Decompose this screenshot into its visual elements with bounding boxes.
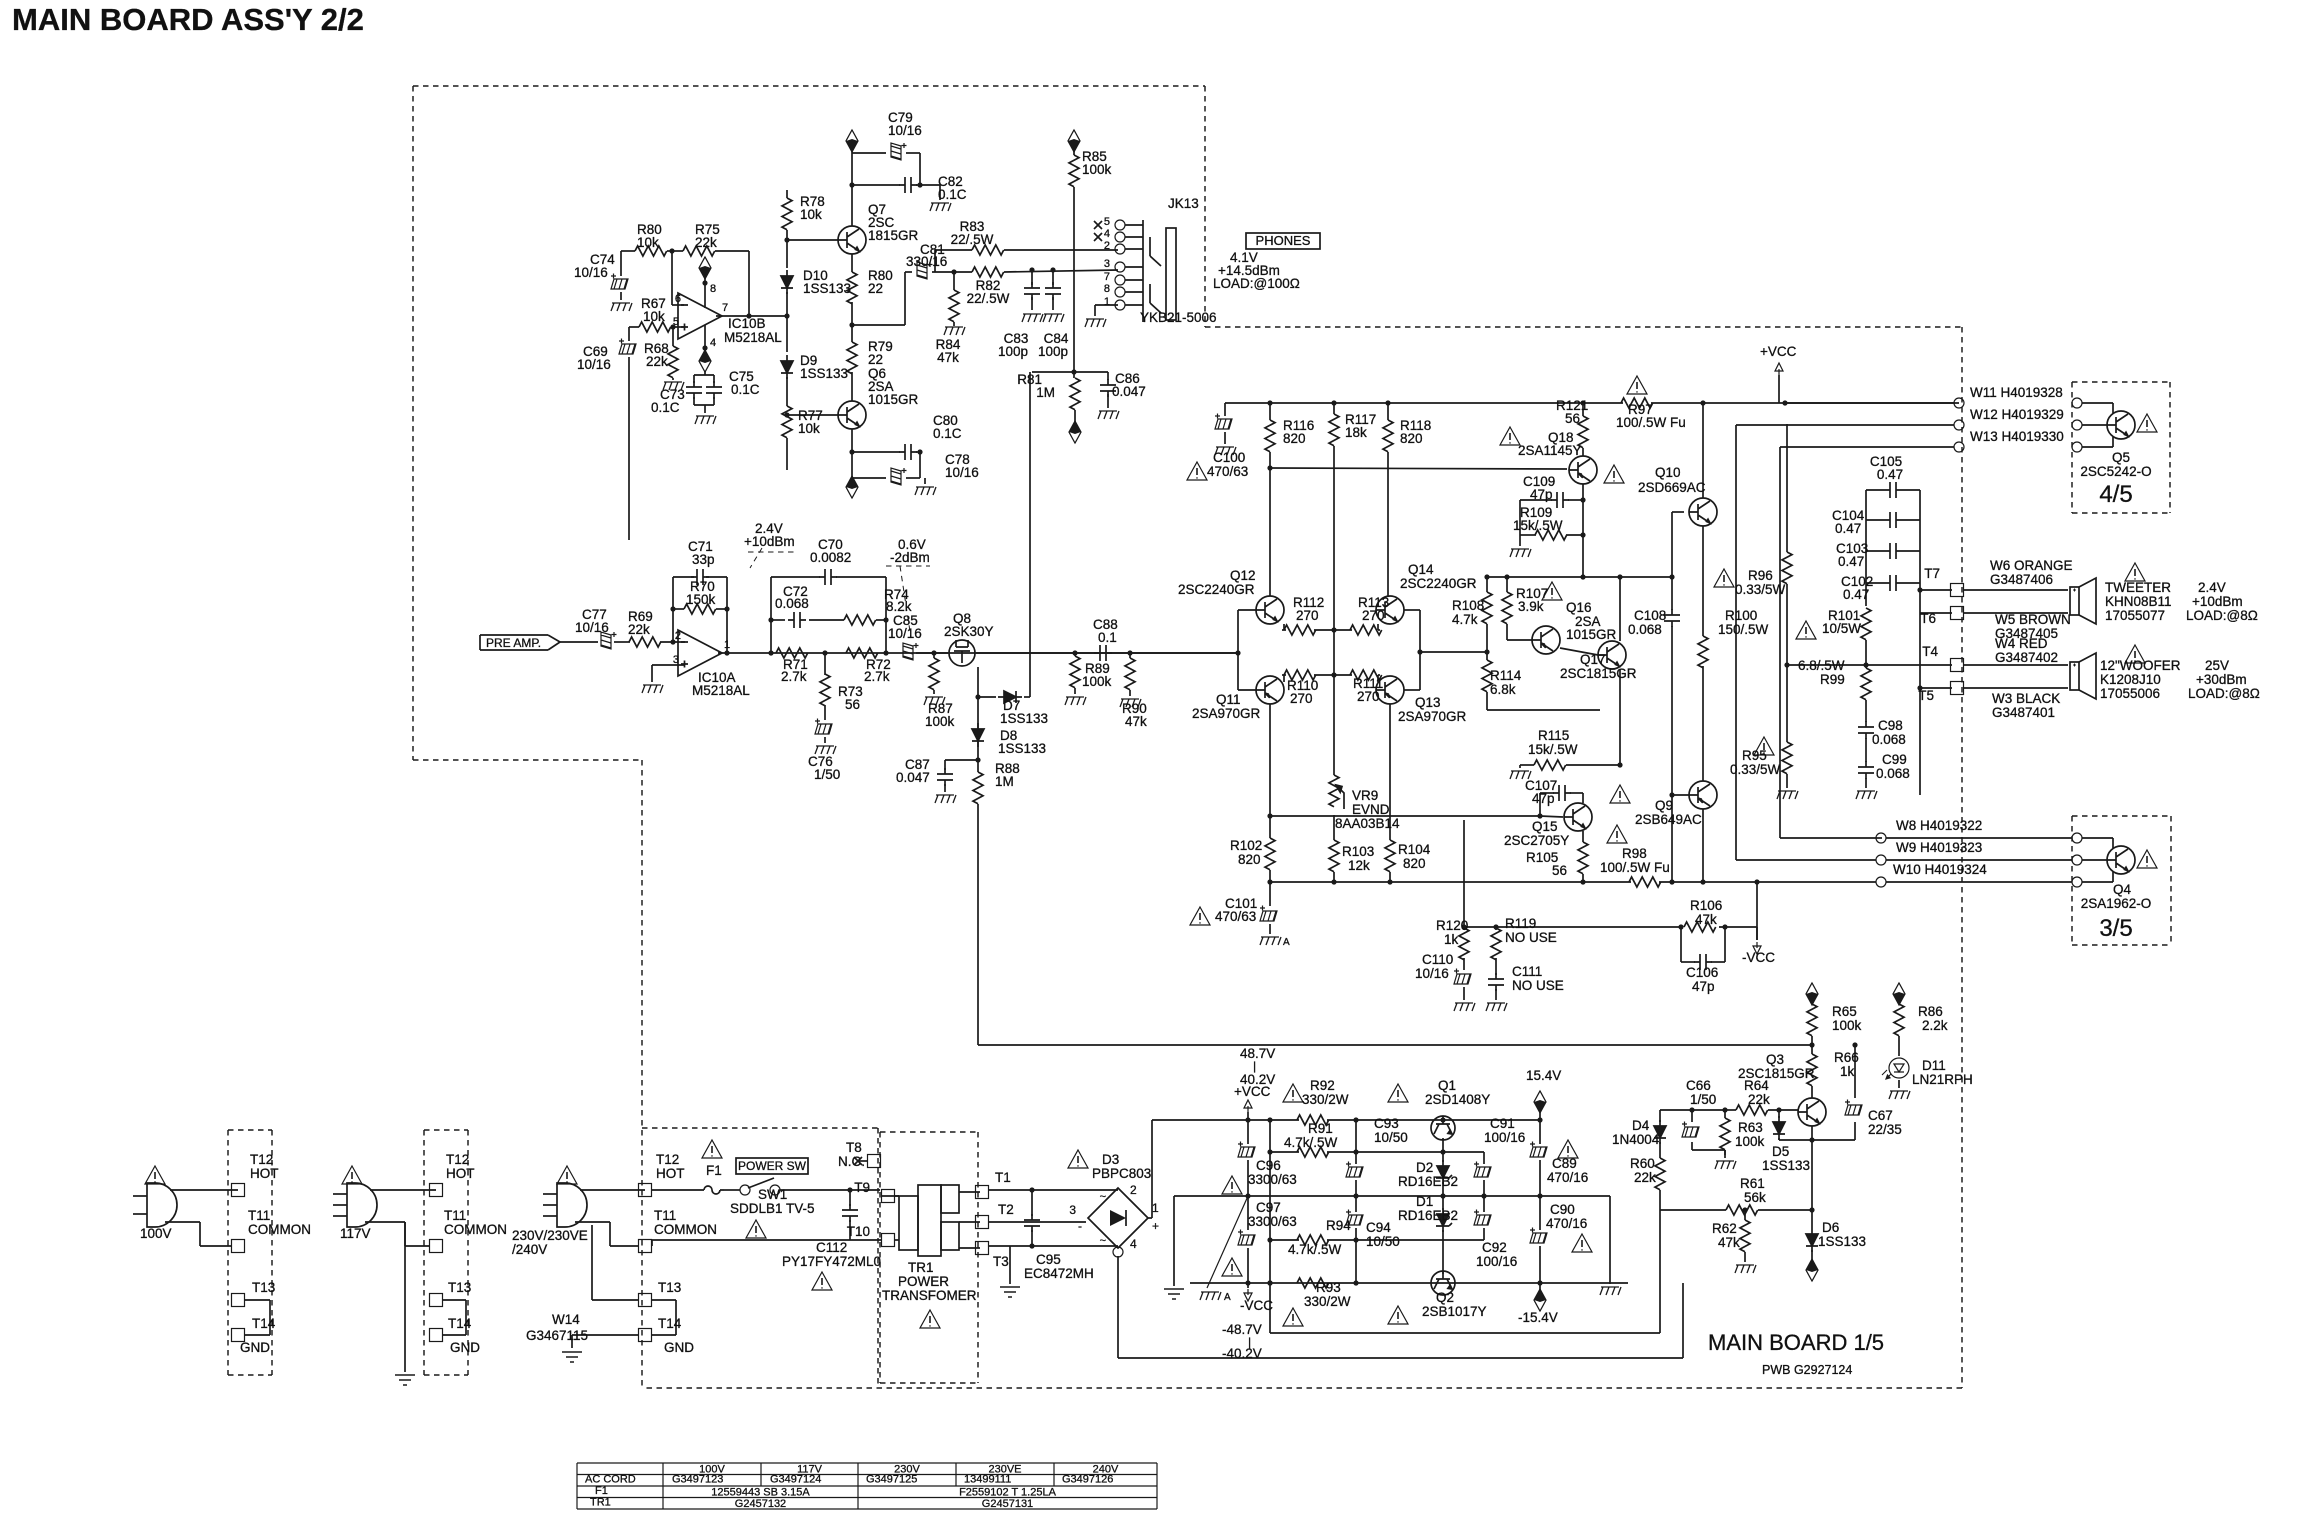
- svg-text:F2559102 T 1.25LA: F2559102 T 1.25LA: [959, 1487, 1057, 1499]
- svg-text:2SC2240GR: 2SC2240GR: [1400, 576, 1477, 591]
- svg-text:C66: C66: [1686, 1078, 1711, 1093]
- svg-text:C91: C91: [1490, 1116, 1515, 1131]
- svg-text:10/16: 10/16: [574, 265, 608, 280]
- svg-text:10k: 10k: [643, 309, 665, 324]
- svg-text:T14: T14: [658, 1316, 682, 1331]
- svg-text:Q13: Q13: [1415, 695, 1441, 710]
- svg-text:D3: D3: [1102, 1152, 1119, 1167]
- svg-text:C100: C100: [1213, 450, 1245, 465]
- svg-text:T13: T13: [252, 1280, 275, 1295]
- svg-text:-: -: [1078, 1219, 1082, 1233]
- svg-text:NO USE: NO USE: [1512, 978, 1564, 993]
- svg-text:Q10: Q10: [1655, 465, 1681, 480]
- svg-text:1: 1: [1104, 296, 1110, 308]
- svg-text:100V: 100V: [140, 1226, 172, 1241]
- svg-text:15.4V: 15.4V: [1526, 1068, 1561, 1083]
- svg-text:1/50: 1/50: [814, 767, 840, 782]
- svg-text:100p: 100p: [998, 344, 1028, 359]
- svg-text:4.7k/.5W: 4.7k/.5W: [1288, 1242, 1342, 1257]
- svg-text:TR1: TR1: [908, 1260, 934, 1275]
- svg-text:Q14: Q14: [1408, 562, 1434, 577]
- svg-text:2SC2240GR: 2SC2240GR: [1178, 582, 1255, 597]
- svg-text:117V: 117V: [340, 1226, 371, 1241]
- svg-text:C108: C108: [1634, 608, 1666, 623]
- svg-text:100/.5W Fu: 100/.5W Fu: [1600, 860, 1670, 875]
- svg-text:100k: 100k: [1082, 162, 1112, 177]
- svg-text:R108: R108: [1452, 598, 1484, 613]
- svg-text:10k: 10k: [800, 207, 822, 222]
- svg-text:0.1C: 0.1C: [933, 426, 962, 441]
- svg-text:12559443 SB 3.15A: 12559443 SB 3.15A: [711, 1487, 810, 1499]
- svg-text:R63: R63: [1738, 1120, 1763, 1135]
- svg-text:1M: 1M: [995, 774, 1014, 789]
- svg-text:47p: 47p: [1530, 487, 1553, 502]
- svg-text:1SS133: 1SS133: [803, 281, 851, 296]
- svg-text:4: 4: [1130, 1237, 1137, 1251]
- svg-text:40.2V: 40.2V: [1240, 1072, 1275, 1087]
- svg-text:HOT: HOT: [250, 1166, 279, 1181]
- svg-text:R115: R115: [1538, 728, 1569, 743]
- svg-text:-VCC: -VCC: [1742, 950, 1775, 965]
- svg-text:1k: 1k: [1444, 932, 1459, 947]
- svg-text:0.47: 0.47: [1838, 554, 1864, 569]
- svg-text:A: A: [1283, 937, 1290, 948]
- svg-text:2: 2: [1104, 240, 1110, 252]
- svg-text:R95: R95: [1742, 748, 1767, 763]
- svg-text:PBPC803: PBPC803: [1092, 1166, 1151, 1181]
- svg-text:100/.5W Fu: 100/.5W Fu: [1616, 415, 1686, 430]
- svg-text:15k/.5W: 15k/.5W: [1528, 742, 1578, 757]
- svg-text:T10: T10: [847, 1224, 870, 1239]
- svg-text:1SS133: 1SS133: [1762, 1158, 1810, 1173]
- svg-text:HOT: HOT: [446, 1166, 475, 1181]
- svg-text:T11: T11: [248, 1208, 270, 1223]
- svg-text:270: 270: [1357, 689, 1380, 704]
- svg-text:10/16: 10/16: [888, 123, 922, 138]
- svg-text:G2457131: G2457131: [982, 1498, 1033, 1510]
- svg-text:R102: R102: [1230, 838, 1262, 853]
- svg-text:T14: T14: [448, 1316, 472, 1331]
- svg-text:F1: F1: [706, 1163, 722, 1178]
- svg-text:R65: R65: [1832, 1004, 1857, 1019]
- svg-text:2.4V: 2.4V: [2198, 580, 2226, 595]
- svg-text:T11: T11: [444, 1208, 466, 1223]
- svg-text:1: 1: [724, 639, 730, 651]
- svg-text:2: 2: [675, 630, 681, 642]
- svg-text:270: 270: [1362, 608, 1385, 623]
- svg-text:+10dBm: +10dBm: [744, 534, 795, 549]
- svg-text:T7: T7: [1924, 566, 1940, 581]
- svg-text:0.068: 0.068: [1872, 732, 1906, 747]
- svg-text:Q4: Q4: [2113, 882, 2132, 897]
- svg-text:COMMON: COMMON: [444, 1222, 507, 1237]
- svg-text:PHONES: PHONES: [1256, 233, 1311, 248]
- svg-text:T12: T12: [250, 1152, 273, 1167]
- svg-text:W5 BROWN: W5 BROWN: [1995, 612, 2071, 627]
- svg-text:+30dBm: +30dBm: [2196, 672, 2247, 687]
- svg-text:0.47: 0.47: [1835, 521, 1861, 536]
- svg-text:6.8k: 6.8k: [1490, 682, 1516, 697]
- svg-text:-48.7V: -48.7V: [1222, 1322, 1262, 1337]
- svg-text:R91: R91: [1308, 1121, 1333, 1136]
- svg-text:C96: C96: [1256, 1158, 1281, 1173]
- svg-text:3: 3: [673, 654, 679, 666]
- svg-text:10/16: 10/16: [888, 626, 922, 641]
- svg-text:LOAD:@8Ω: LOAD:@8Ω: [2186, 608, 2258, 623]
- svg-text:RD16EB2: RD16EB2: [1398, 1208, 1458, 1223]
- svg-text:SW1: SW1: [758, 1187, 787, 1202]
- svg-text:1SS133: 1SS133: [800, 366, 848, 381]
- svg-text:22: 22: [868, 352, 883, 367]
- svg-text:56: 56: [1565, 411, 1580, 426]
- svg-text:T2: T2: [998, 1202, 1014, 1217]
- svg-text:47k: 47k: [937, 350, 959, 365]
- svg-text:3.9k: 3.9k: [1518, 599, 1544, 614]
- svg-text:17055077: 17055077: [2105, 608, 2165, 623]
- svg-text:0.1: 0.1: [1098, 630, 1117, 645]
- svg-text:W3 BLACK: W3 BLACK: [1992, 691, 2060, 706]
- svg-text:270: 270: [1290, 691, 1313, 706]
- svg-text:COMMON: COMMON: [248, 1222, 311, 1237]
- svg-text:2: 2: [1130, 1183, 1137, 1197]
- svg-text:2SB649AC: 2SB649AC: [1635, 812, 1702, 827]
- svg-text:MAIN BOARD 1/5: MAIN BOARD 1/5: [1708, 1330, 1884, 1355]
- svg-text:R96: R96: [1748, 568, 1773, 583]
- svg-text:R94: R94: [1326, 1218, 1351, 1233]
- svg-text:KHN08B11: KHN08B11: [2105, 594, 2172, 609]
- svg-text:3: 3: [1104, 258, 1110, 270]
- svg-text:T12: T12: [446, 1152, 469, 1167]
- svg-text:+: +: [1152, 1219, 1159, 1233]
- svg-text:YKB21-5006: YKB21-5006: [1140, 310, 1217, 325]
- svg-text:10/50: 10/50: [1374, 1130, 1408, 1145]
- svg-text:56: 56: [845, 697, 860, 712]
- svg-text:+10dBm: +10dBm: [2192, 594, 2243, 609]
- svg-text:D1: D1: [1416, 1194, 1433, 1209]
- svg-text:56k: 56k: [1744, 1190, 1766, 1205]
- svg-text:820: 820: [1238, 852, 1261, 867]
- svg-text:0.33/5W: 0.33/5W: [1735, 582, 1786, 597]
- svg-text:W6 ORANGE: W6 ORANGE: [1990, 558, 2073, 573]
- svg-text:330/2W: 330/2W: [1302, 1092, 1349, 1107]
- svg-text:0.047: 0.047: [1112, 384, 1146, 399]
- svg-text:R93: R93: [1316, 1280, 1341, 1295]
- svg-text:2SA970GR: 2SA970GR: [1398, 709, 1467, 724]
- svg-text:3/5: 3/5: [2099, 915, 2132, 942]
- svg-text:Q3: Q3: [1766, 1052, 1784, 1067]
- svg-text:TRANSFOMER: TRANSFOMER: [882, 1288, 977, 1303]
- svg-text:56: 56: [1552, 863, 1567, 878]
- svg-text:2SC1815GR: 2SC1815GR: [1560, 666, 1637, 681]
- svg-text:5: 5: [673, 316, 679, 328]
- svg-text:T6: T6: [1920, 611, 1936, 626]
- svg-text:C89: C89: [1552, 1156, 1577, 1171]
- svg-text:C106: C106: [1686, 965, 1718, 980]
- svg-text:22k: 22k: [1748, 1092, 1770, 1107]
- svg-text:R61: R61: [1740, 1176, 1765, 1191]
- svg-text:R104: R104: [1398, 842, 1431, 857]
- svg-text:2.7k: 2.7k: [864, 669, 890, 684]
- svg-text:22k: 22k: [646, 354, 668, 369]
- svg-text:Q17: Q17: [1580, 652, 1606, 667]
- svg-text:G3487406: G3487406: [1990, 572, 2053, 587]
- svg-text:C110: C110: [1422, 952, 1453, 967]
- svg-text:100/16: 100/16: [1484, 1130, 1525, 1145]
- svg-text:10/16: 10/16: [577, 357, 611, 372]
- svg-text:10/16: 10/16: [575, 620, 609, 635]
- svg-text:G3467115: G3467115: [526, 1328, 588, 1343]
- svg-text:R106: R106: [1690, 898, 1722, 913]
- svg-text:D5: D5: [1772, 1144, 1789, 1159]
- svg-text:8AA03B14: 8AA03B14: [1335, 816, 1400, 831]
- svg-text:33p: 33p: [692, 552, 715, 567]
- svg-text:VR9: VR9: [1352, 788, 1378, 803]
- svg-text:12"WOOFER: 12"WOOFER: [2100, 658, 2181, 673]
- svg-text:0.068: 0.068: [775, 596, 809, 611]
- svg-text:22/.5W: 22/.5W: [951, 232, 994, 247]
- svg-text:D11: D11: [1922, 1058, 1946, 1073]
- svg-text:PWB G2927124: PWB G2927124: [1762, 1363, 1852, 1377]
- svg-text:Q16: Q16: [1566, 600, 1592, 615]
- svg-text:6: 6: [675, 293, 681, 305]
- svg-text:K1208J10: K1208J10: [2100, 672, 2161, 687]
- svg-text:~: ~: [1100, 1235, 1106, 1247]
- svg-text:G3497125: G3497125: [866, 1474, 917, 1486]
- svg-text:2.2k: 2.2k: [1922, 1018, 1948, 1033]
- svg-text:GND: GND: [450, 1340, 480, 1355]
- svg-text:10/16: 10/16: [945, 465, 979, 480]
- svg-text:LOAD:@8Ω: LOAD:@8Ω: [2188, 686, 2260, 701]
- svg-text:R92: R92: [1310, 1078, 1335, 1093]
- svg-text:22k: 22k: [1634, 1170, 1656, 1185]
- svg-text:Q5: Q5: [2112, 450, 2130, 465]
- svg-text:25V: 25V: [2205, 658, 2229, 673]
- svg-text:W9 H4019323: W9 H4019323: [1896, 840, 1982, 855]
- svg-text:C67: C67: [1868, 1108, 1893, 1123]
- svg-text:7: 7: [722, 302, 728, 314]
- svg-text:N.C.: N.C.: [838, 1154, 865, 1169]
- svg-text:1815GR: 1815GR: [868, 228, 919, 243]
- svg-text:4.7k: 4.7k: [1452, 612, 1478, 627]
- svg-text:13499111: 13499111: [964, 1474, 1011, 1486]
- svg-text:TR1: TR1: [590, 1497, 611, 1509]
- svg-text:COMMON: COMMON: [654, 1222, 717, 1237]
- svg-text:GND: GND: [664, 1340, 694, 1355]
- svg-text:W11 H4019328: W11 H4019328: [1970, 385, 2063, 400]
- svg-text:2SA970GR: 2SA970GR: [1192, 706, 1261, 721]
- svg-text:C90: C90: [1550, 1202, 1575, 1217]
- svg-text:A: A: [1224, 1292, 1231, 1303]
- svg-text:C111: C111: [1512, 964, 1542, 979]
- svg-text:~: ~: [1100, 1191, 1106, 1203]
- svg-text:C94: C94: [1366, 1220, 1391, 1235]
- svg-text:R99: R99: [1820, 672, 1845, 687]
- svg-text:820: 820: [1283, 431, 1306, 446]
- svg-text:0.068: 0.068: [1876, 766, 1910, 781]
- svg-text:T11: T11: [654, 1208, 676, 1223]
- svg-text:1015GR: 1015GR: [1566, 627, 1617, 642]
- svg-text:47p: 47p: [1692, 979, 1715, 994]
- svg-text:T4: T4: [1922, 644, 1938, 659]
- svg-text:GND: GND: [240, 1340, 270, 1355]
- svg-text:1015GR: 1015GR: [868, 392, 919, 407]
- svg-text:150/.5W: 150/.5W: [1718, 622, 1769, 637]
- svg-text:8: 8: [1104, 283, 1110, 295]
- svg-text:47k: 47k: [1125, 714, 1147, 729]
- svg-text:2.7k: 2.7k: [781, 669, 807, 684]
- svg-text:LOAD:@100Ω: LOAD:@100Ω: [1213, 276, 1300, 291]
- svg-text:10/5W: 10/5W: [1822, 621, 1861, 636]
- svg-text:0.1C: 0.1C: [731, 382, 760, 397]
- svg-text:0.33/5W: 0.33/5W: [1730, 762, 1781, 777]
- svg-text:2SA1145Y: 2SA1145Y: [1518, 443, 1582, 458]
- svg-text:C92: C92: [1482, 1240, 1507, 1255]
- svg-text:100k: 100k: [1082, 674, 1112, 689]
- svg-text:D4: D4: [1632, 1118, 1650, 1133]
- svg-text:POWER: POWER: [898, 1274, 949, 1289]
- svg-text:/240V: /240V: [512, 1242, 547, 1257]
- svg-text:0.1C: 0.1C: [938, 187, 967, 202]
- svg-text:JK13: JK13: [1168, 196, 1199, 211]
- svg-text:G3497126: G3497126: [1062, 1474, 1113, 1486]
- svg-text:Q11: Q11: [1216, 692, 1241, 707]
- svg-text:0.0082: 0.0082: [810, 550, 851, 565]
- svg-text:C93: C93: [1374, 1116, 1399, 1131]
- svg-text:1N4004: 1N4004: [1612, 1132, 1660, 1147]
- svg-text:100/16: 100/16: [1476, 1254, 1517, 1269]
- svg-text:C99: C99: [1882, 752, 1907, 767]
- svg-text:10k: 10k: [798, 421, 820, 436]
- svg-text:W14: W14: [552, 1312, 580, 1327]
- svg-text:-40.2V: -40.2V: [1222, 1346, 1262, 1361]
- svg-text:T5: T5: [1918, 688, 1934, 703]
- svg-text:Q2: Q2: [1436, 1290, 1454, 1305]
- svg-text:4.7k/.5W: 4.7k/.5W: [1284, 1135, 1338, 1150]
- svg-text:M5218AL: M5218AL: [724, 330, 782, 345]
- svg-text:1M: 1M: [1036, 385, 1055, 400]
- svg-text:EVND: EVND: [1352, 802, 1390, 817]
- svg-text:LN21RPH: LN21RPH: [1912, 1072, 1973, 1087]
- svg-text:100k: 100k: [925, 714, 955, 729]
- svg-text:R100: R100: [1725, 608, 1757, 623]
- svg-text:W10 H4019324: W10 H4019324: [1893, 862, 1987, 877]
- svg-text:MAIN BOARD ASS'Y 2/2: MAIN BOARD ASS'Y 2/2: [12, 2, 364, 37]
- svg-text:100k: 100k: [1832, 1018, 1862, 1033]
- svg-text:12k: 12k: [1348, 858, 1370, 873]
- svg-text:RD16EB2: RD16EB2: [1398, 1174, 1458, 1189]
- svg-text:100k: 100k: [1735, 1134, 1765, 1149]
- svg-text:D2: D2: [1416, 1160, 1433, 1175]
- svg-text:PY17FY472ML0: PY17FY472ML0: [782, 1254, 881, 1269]
- svg-text:22/35: 22/35: [1868, 1122, 1902, 1137]
- svg-text:R114: R114: [1490, 668, 1522, 683]
- svg-text:R119: R119: [1505, 916, 1536, 931]
- svg-text:3300/63: 3300/63: [1248, 1214, 1297, 1229]
- svg-text:D6: D6: [1822, 1220, 1839, 1235]
- svg-text:1/50: 1/50: [1690, 1092, 1716, 1107]
- svg-text:R103: R103: [1342, 844, 1374, 859]
- svg-text:2SC5242-O: 2SC5242-O: [2080, 464, 2151, 479]
- svg-text:R66: R66: [1834, 1050, 1859, 1065]
- svg-text:470/63: 470/63: [1215, 909, 1256, 924]
- svg-text:0.47: 0.47: [1877, 467, 1903, 482]
- svg-text:W8 H4019322: W8 H4019322: [1896, 818, 1982, 833]
- svg-text:230V/230VE: 230V/230VE: [512, 1228, 588, 1243]
- svg-text:820: 820: [1400, 431, 1423, 446]
- svg-text:R86: R86: [1918, 1004, 1943, 1019]
- svg-text:Q15: Q15: [1532, 819, 1558, 834]
- svg-text:10/50: 10/50: [1366, 1234, 1400, 1249]
- svg-text:SDDLB1 TV-5: SDDLB1 TV-5: [730, 1201, 815, 1216]
- svg-text:6.8/.5W: 6.8/.5W: [1798, 658, 1845, 673]
- svg-text:HOT: HOT: [656, 1166, 685, 1181]
- svg-text:0.47: 0.47: [1843, 587, 1869, 602]
- svg-text:G2457132: G2457132: [735, 1498, 786, 1510]
- svg-text:2SB1017Y: 2SB1017Y: [1422, 1304, 1487, 1319]
- svg-text:3: 3: [1069, 1203, 1076, 1217]
- svg-text:22k: 22k: [695, 235, 717, 250]
- svg-text:T3: T3: [993, 1254, 1009, 1269]
- svg-text:17055006: 17055006: [2100, 686, 2160, 701]
- svg-text:C95: C95: [1036, 1252, 1061, 1267]
- svg-text:470/16: 470/16: [1547, 1170, 1588, 1185]
- svg-text:1SS133: 1SS133: [1818, 1234, 1866, 1249]
- svg-text:1k: 1k: [1840, 1064, 1855, 1079]
- svg-text:T1: T1: [995, 1170, 1011, 1185]
- svg-text:18k: 18k: [1345, 425, 1367, 440]
- svg-text:2SC2705Y: 2SC2705Y: [1504, 833, 1569, 848]
- svg-text:POWER SW: POWER SW: [738, 1159, 807, 1173]
- svg-text:100p: 100p: [1038, 344, 1068, 359]
- svg-text:3300/63: 3300/63: [1248, 1172, 1297, 1187]
- svg-text:G3497124: G3497124: [770, 1474, 821, 1486]
- svg-text:TWEETER: TWEETER: [2105, 580, 2171, 595]
- svg-text:7: 7: [1104, 271, 1110, 283]
- svg-text:2SA1962-O: 2SA1962-O: [2081, 896, 2152, 911]
- svg-text:C97: C97: [1256, 1200, 1281, 1215]
- svg-text:150k: 150k: [686, 592, 716, 607]
- svg-text:R120: R120: [1436, 918, 1468, 933]
- svg-text:T13: T13: [448, 1280, 471, 1295]
- svg-text:270: 270: [1296, 608, 1319, 623]
- svg-text:Q9: Q9: [1655, 798, 1673, 813]
- svg-text:T9: T9: [854, 1180, 870, 1195]
- svg-text:4: 4: [1104, 228, 1110, 240]
- svg-text:22: 22: [868, 281, 883, 296]
- svg-text:AC CORD: AC CORD: [585, 1474, 636, 1486]
- svg-text:R62: R62: [1712, 1221, 1737, 1236]
- svg-text:1: 1: [1152, 1201, 1159, 1215]
- svg-text:-VCC: -VCC: [1240, 1298, 1273, 1313]
- svg-text:10/16: 10/16: [1415, 966, 1449, 981]
- svg-text:330/2W: 330/2W: [1304, 1294, 1351, 1309]
- svg-text:G3497123: G3497123: [672, 1474, 723, 1486]
- svg-text:22k: 22k: [628, 622, 650, 637]
- svg-text:C112: C112: [816, 1240, 847, 1255]
- svg-text:820: 820: [1403, 856, 1426, 871]
- svg-text:W12 H4019329: W12 H4019329: [1970, 407, 2064, 422]
- svg-text:8.2k: 8.2k: [886, 599, 912, 614]
- svg-text:Q1: Q1: [1438, 1078, 1456, 1093]
- svg-text:-15.4V: -15.4V: [1518, 1310, 1558, 1325]
- svg-text:470/63: 470/63: [1207, 464, 1248, 479]
- svg-text:47k: 47k: [1695, 912, 1717, 927]
- svg-text:2SK30Y: 2SK30Y: [944, 624, 994, 639]
- svg-text:C98: C98: [1878, 718, 1903, 733]
- svg-text:47k: 47k: [1718, 1235, 1740, 1250]
- svg-text:1SS133: 1SS133: [1000, 711, 1048, 726]
- svg-text:F1: F1: [595, 1485, 608, 1497]
